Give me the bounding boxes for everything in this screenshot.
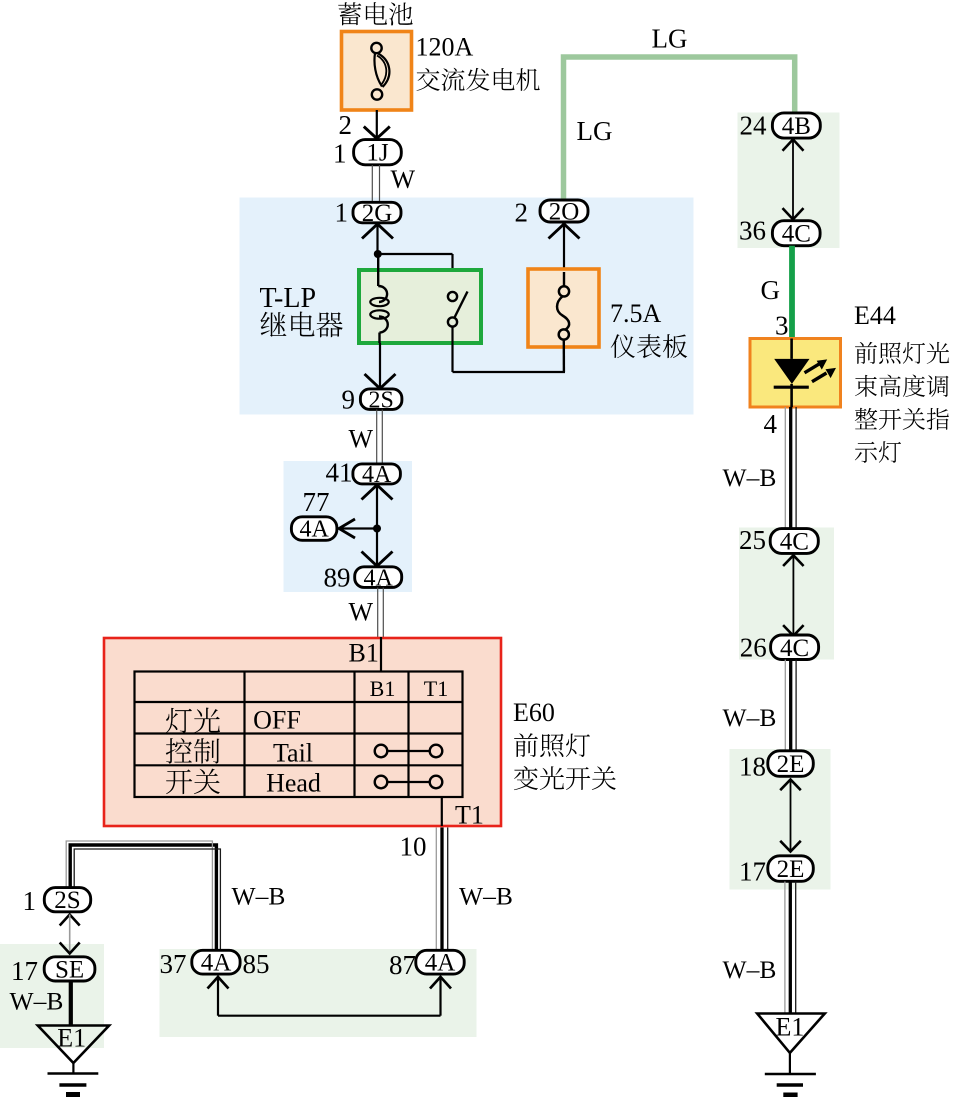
svg-text:24: 24 xyxy=(740,110,768,140)
svg-text:4A: 4A xyxy=(425,950,456,977)
svg-text:10: 10 xyxy=(400,832,427,862)
row OFF xyxy=(253,706,301,735)
wire: SE to ground E1 xyxy=(69,981,73,1026)
Head contacts xyxy=(375,776,443,789)
pin 77 / connector 4A xyxy=(291,487,337,543)
ground E1 (left) xyxy=(38,1024,109,1095)
svg-text:2E: 2E xyxy=(777,856,805,883)
wire: relay switch to fuse bottom xyxy=(453,327,566,373)
svg-text:4C: 4C xyxy=(780,529,809,556)
pin 10 on T1 wire xyxy=(400,832,427,862)
node B1 xyxy=(349,637,382,672)
svg-text:W–B: W–B xyxy=(459,881,513,910)
pin 2 (alternator output) xyxy=(339,110,353,140)
junction node xyxy=(374,250,382,258)
svg-text:Tail: Tail xyxy=(273,739,313,768)
pin 24 / connector 4B xyxy=(740,110,821,140)
svg-text:2O: 2O xyxy=(549,199,580,226)
wire: 2O to fuse xyxy=(549,224,580,286)
svg-text:41: 41 xyxy=(326,458,353,488)
svg-text:2: 2 xyxy=(515,197,529,227)
label E60 前照灯变光开关 xyxy=(513,698,555,727)
row Tail xyxy=(273,739,313,768)
svg-text:2S: 2S xyxy=(369,387,394,413)
node T1 wire out of table xyxy=(442,797,484,830)
relay T-LP box xyxy=(359,270,481,343)
pin 36 / connector 4C xyxy=(739,215,820,247)
wire W-B: loop from 1 2S up over to 37 4A xyxy=(66,841,220,950)
svg-text:3: 3 xyxy=(775,311,789,341)
harness shading blue (4A junction area) xyxy=(284,461,413,592)
relay coil xyxy=(370,254,388,343)
relay switch contacts xyxy=(448,292,468,327)
wire: ground link 37 4A to 87 4A xyxy=(208,977,452,1016)
svg-text:W–B: W–B xyxy=(723,703,777,732)
label T-LP 继电器 relay xyxy=(260,283,317,314)
svg-text:W–B: W–B xyxy=(10,986,64,1015)
wire: junction down to 89 4A xyxy=(362,529,393,567)
svg-text:1: 1 xyxy=(333,138,347,168)
svg-text:1J: 1J xyxy=(366,140,389,167)
wire label W-B xyxy=(459,881,513,910)
svg-text:36: 36 xyxy=(739,215,766,245)
value label 120A xyxy=(416,33,474,62)
svg-text:G: G xyxy=(761,275,781,305)
Tail contacts xyxy=(375,745,443,758)
svg-text:2S: 2S xyxy=(54,887,80,914)
value label 7.5A xyxy=(610,299,662,328)
svg-text:T1: T1 xyxy=(455,801,484,830)
junction node xyxy=(373,525,381,533)
svg-text:25: 25 xyxy=(739,525,766,555)
svg-text:9: 9 xyxy=(342,385,356,415)
svg-text:Head: Head xyxy=(266,769,321,798)
svg-text:W: W xyxy=(391,165,416,194)
connector shading green (18/17 2E) xyxy=(730,749,831,890)
svg-text:2E: 2E xyxy=(777,751,805,778)
LG wire: alternator area to 2O and 4B xyxy=(564,57,795,200)
wire W-B: T1 to 87 4A xyxy=(436,828,447,951)
connector mating arrows 25-26 xyxy=(783,555,804,636)
svg-text:E44: E44 xyxy=(854,301,896,330)
label 灯光控制开关 light control switch xyxy=(166,708,220,795)
wire label W-B xyxy=(10,986,64,1015)
pin 1 / connector 2G xyxy=(335,197,402,227)
connector mating arrows 18-17 xyxy=(780,780,801,852)
pin 3 xyxy=(775,311,789,341)
label: alternator 交流发电机 xyxy=(417,68,540,91)
wire: junction to 77 4A xyxy=(339,519,377,538)
wire G: 4C to E44 xyxy=(789,246,795,339)
wire: 41 4A to junction xyxy=(362,485,393,529)
svg-text:4C: 4C xyxy=(782,221,811,248)
svg-text:E60: E60 xyxy=(513,698,555,727)
wire label G xyxy=(761,275,781,305)
row Head xyxy=(266,769,321,798)
svg-text:B1: B1 xyxy=(370,676,396,701)
table header T1 xyxy=(424,676,448,701)
wire: alternator to connector 1J xyxy=(364,110,390,139)
svg-text:4A: 4A xyxy=(201,950,232,977)
wire W-B: 17 2E to ground E1 xyxy=(785,882,796,1014)
harness shading blue (relay area) xyxy=(240,198,694,415)
pin 1 / connector 1J xyxy=(333,138,401,168)
svg-text:W–B: W–B xyxy=(232,881,286,910)
wire label LG (left) xyxy=(577,116,613,146)
svg-text:4: 4 xyxy=(764,409,778,439)
svg-text:77: 77 xyxy=(303,487,330,517)
wire W: 89 4A to E60 xyxy=(378,588,384,638)
svg-text:T1: T1 xyxy=(424,676,448,701)
pin 25 / connector 4C xyxy=(739,525,818,555)
svg-text:2: 2 xyxy=(339,110,353,140)
table header B1 xyxy=(370,676,396,701)
wire W-B: 26 4C to 18 2E xyxy=(785,660,796,751)
svg-text:E1: E1 xyxy=(57,1024,86,1053)
pin 17 / connector SE xyxy=(11,956,95,986)
wire label W-B xyxy=(232,881,286,910)
svg-text:4A: 4A xyxy=(364,565,394,591)
svg-text:89: 89 xyxy=(324,562,351,592)
svg-text:1: 1 xyxy=(23,886,37,916)
pin 87 / connector 4A xyxy=(389,950,464,980)
label: instrument panel 仪表板 xyxy=(611,334,687,358)
svg-text:17: 17 xyxy=(739,857,766,887)
pin 41 / connector 4A xyxy=(326,458,401,489)
wire label W-B xyxy=(723,955,777,984)
svg-text:LG: LG xyxy=(577,116,613,146)
svg-text:85: 85 xyxy=(243,949,270,979)
svg-text:B1: B1 xyxy=(349,639,379,668)
pin 1 / connector 2S xyxy=(23,886,91,916)
wire: junction to relay switch xyxy=(378,254,453,292)
svg-text:7.5A: 7.5A xyxy=(610,299,662,328)
pin 17 / connector 2E xyxy=(739,856,813,887)
pin 26 / connector 4C xyxy=(740,633,819,663)
wire W: 2S to 41 4A xyxy=(377,410,383,465)
svg-text:37: 37 xyxy=(160,949,187,979)
svg-text:W–B: W–B xyxy=(723,955,777,984)
pin 4 xyxy=(764,409,778,439)
pin 89 / connector 4A xyxy=(324,562,402,592)
fusible link 120A alternator box xyxy=(342,32,412,111)
wire label LG (top) xyxy=(652,24,688,54)
switch E60 box xyxy=(104,638,501,826)
pin 9 / connector 2S xyxy=(342,385,402,415)
wire W-B: E44 to 25 4C xyxy=(785,407,796,528)
connector shading green (37/87 4A) xyxy=(160,949,477,1037)
svg-text:120A: 120A xyxy=(416,33,474,62)
connector mating arrows 4B-4C xyxy=(783,139,804,219)
svg-text:26: 26 xyxy=(740,633,767,663)
wire: 2G down to junction xyxy=(362,224,393,254)
svg-text:4C: 4C xyxy=(780,635,809,662)
fuse 7.5A box xyxy=(528,269,599,372)
svg-text:LG: LG xyxy=(652,24,688,54)
svg-text:18: 18 xyxy=(739,752,766,782)
svg-text:T-LP: T-LP xyxy=(260,283,317,314)
switch table xyxy=(135,672,463,798)
wire W: 1J to 2G xyxy=(372,165,379,203)
svg-text:W: W xyxy=(349,424,374,453)
connector shading green (4B-4C) xyxy=(738,113,840,249)
wire label W xyxy=(349,598,374,627)
pin 2 / connector 2O xyxy=(515,197,589,227)
svg-text:E1: E1 xyxy=(776,1013,805,1042)
svg-text:87: 87 xyxy=(389,950,416,980)
svg-text:4A: 4A xyxy=(300,517,330,543)
label E44 indicator xyxy=(854,301,896,330)
E44 indicator lamp box xyxy=(750,339,841,408)
svg-text:17: 17 xyxy=(11,956,38,986)
connector mating arrows 2S-SE xyxy=(60,915,80,954)
pin 37 / connector 4A / pin 85 xyxy=(160,949,270,979)
wire label W-B xyxy=(723,463,777,492)
label: battery 蓄电池 xyxy=(338,2,412,25)
svg-text:1: 1 xyxy=(335,197,349,227)
svg-text:W–B: W–B xyxy=(723,463,777,492)
svg-text:OFF: OFF xyxy=(253,706,301,735)
svg-text:4B: 4B xyxy=(782,113,811,140)
wire: relay coil to 2S xyxy=(365,343,396,389)
wire label W xyxy=(391,165,416,194)
svg-text:W: W xyxy=(349,598,374,627)
wire label W xyxy=(349,424,374,453)
ground E1 (right) xyxy=(757,1013,825,1096)
connector shading green (SE / E1 left) xyxy=(0,944,104,1048)
connector shading green (25/26 4C) xyxy=(739,528,834,660)
wire label W-B xyxy=(723,703,777,732)
svg-text:SE: SE xyxy=(55,956,84,983)
pin 18 / connector 2E xyxy=(739,751,813,782)
